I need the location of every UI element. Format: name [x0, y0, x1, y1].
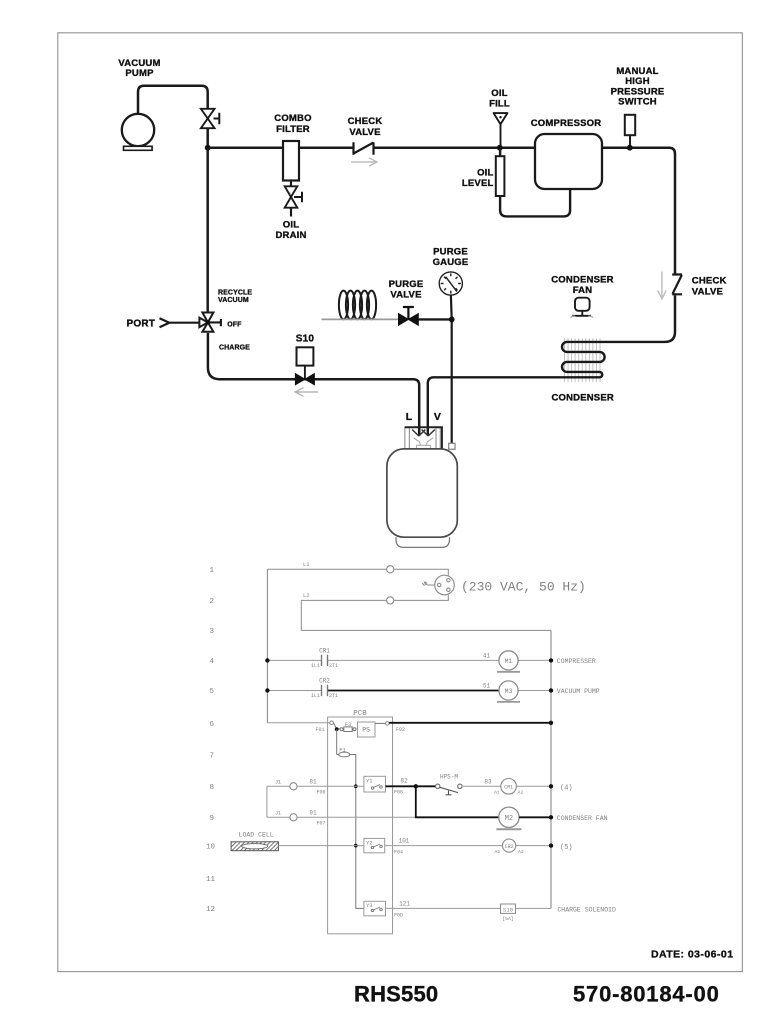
svg-text:COMPRESSER: COMPRESSER [557, 658, 596, 665]
svg-text:12: 12 [206, 906, 215, 914]
coil CR2 [503, 839, 516, 852]
svg-text:11: 11 [206, 876, 216, 884]
node rung4 right [549, 658, 553, 662]
manual high pressure switch body [625, 115, 635, 135]
svg-text:F07: F07 [317, 821, 326, 827]
node rung10 right [549, 843, 553, 847]
svg-text:5: 5 [209, 688, 214, 696]
flow arrow right [351, 158, 377, 166]
relay Y3 [364, 901, 386, 916]
valve: purge valve [399, 307, 419, 325]
svg-text:CONDENSER: CONDENSER [551, 393, 614, 404]
wire M2 to rail bold [519, 816, 551, 818]
motor M2 [499, 807, 519, 827]
PS box [358, 722, 376, 737]
rung numbers [206, 567, 216, 914]
svg-text:(230 VAC, 50 Hz): (230 VAC, 50 Hz) [461, 580, 586, 595]
wire rung 4 [267, 659, 551, 661]
valve: oil drain valve [285, 186, 302, 207]
wire rung 9 bold [416, 786, 499, 817]
svg-text:6: 6 [209, 721, 214, 729]
svg-text:91: 91 [309, 810, 317, 817]
svg-text:F06: F06 [394, 790, 403, 796]
wire rung 8 bold [386, 785, 436, 787]
svg-text:CONDENSER FAN: CONDENSER FAN [557, 815, 608, 822]
vacuum pump body [122, 114, 154, 146]
node rung8 right [549, 784, 553, 788]
left rail [266, 569, 268, 723]
svg-text:2: 2 [209, 598, 214, 606]
svg-text:F01: F01 [315, 727, 324, 733]
wire: recycle vertical line [206, 148, 209, 313]
node: oil fill junction [497, 145, 503, 151]
wire: oil drain stem [290, 181, 292, 217]
svg-text:A1: A1 [495, 849, 501, 855]
wire: purge valve to junction [418, 318, 451, 320]
relay Y1 [364, 776, 386, 792]
svg-text:FAN: FAN [573, 285, 593, 296]
coil CR1 [501, 779, 517, 795]
combo filter body [283, 141, 299, 181]
svg-text:1: 1 [209, 567, 214, 575]
svg-text:4: 4 [209, 658, 214, 666]
solenoid S10 (elec) [501, 904, 516, 913]
tank level sensor fitting [449, 443, 455, 449]
svg-text:CR1: CR1 [319, 648, 330, 655]
svg-text:HPS-M: HPS-M [440, 774, 458, 781]
svg-text:FILL: FILL [489, 98, 510, 109]
svg-text:3: 3 [209, 628, 214, 636]
node rung5 left [265, 688, 269, 692]
wire rung 8 right [462, 785, 551, 787]
svg-text:PS: PS [362, 727, 370, 734]
svg-text:M1: M1 [505, 658, 513, 665]
tank base [396, 537, 450, 547]
svg-text:CONDENSER: CONDENSER [551, 275, 614, 286]
contact CR1 [322, 655, 328, 666]
svg-text:41: 41 [483, 653, 491, 660]
svg-text:82: 82 [400, 778, 408, 785]
svg-text:OIL: OIL [477, 168, 493, 179]
wire rung 12 [386, 907, 552, 909]
wire rung 6 right (bold) [389, 722, 551, 724]
wire rung 9 [297, 816, 416, 818]
wire PS out [375, 722, 386, 724]
vacuum pump base [124, 146, 153, 150]
svg-text:PURGE: PURGE [433, 247, 468, 258]
oil fill funnel [493, 113, 508, 148]
svg-text:OIL: OIL [491, 88, 507, 99]
svg-text:CR2: CR2 [505, 844, 514, 850]
terminal circle rung 2 [387, 597, 394, 604]
svg-text:1L1: 1L1 [311, 693, 320, 699]
svg-text:RHS550: RHS550 [354, 982, 438, 1007]
terminal circle rung 1 [387, 566, 394, 573]
svg-text:J1: J1 [275, 780, 281, 786]
relay Y2 [364, 838, 385, 852]
node rung8 tap [414, 784, 418, 788]
svg-text:(5): (5) [560, 844, 573, 852]
wire rung 2 (L2) [301, 595, 448, 631]
node: pump line junction [205, 145, 211, 151]
svg-text:CR2: CR2 [319, 678, 330, 685]
svg-text:10: 10 [206, 844, 216, 852]
node: hps junction [627, 145, 633, 151]
svg-text:S10: S10 [296, 334, 315, 345]
tank fitting top bar [405, 427, 442, 449]
svg-text:1L1: 1L1 [311, 663, 320, 669]
svg-text:VALVE: VALVE [390, 290, 421, 301]
purge gauge [439, 272, 462, 295]
power plug 230VAC [422, 575, 454, 595]
svg-text:V: V [434, 411, 441, 423]
svg-text:9: 9 [209, 815, 214, 823]
svg-text:L1: L1 [303, 561, 310, 568]
condenser fan symbol [571, 298, 594, 318]
flow arrow left [295, 388, 318, 397]
svg-text:F06: F06 [317, 790, 326, 796]
svg-text:PURGE: PURGE [389, 279, 424, 290]
node F1 tap [335, 727, 339, 731]
svg-text:DRAIN: DRAIN [275, 230, 306, 241]
svg-text:Y1: Y1 [366, 778, 373, 785]
svg-text:COMBO: COMBO [274, 113, 311, 124]
wire: condenser outlet to tank vapor port [428, 377, 545, 435]
svg-text:VACUUM PUMP: VACUUM PUMP [557, 688, 600, 695]
tank fitting funnel [414, 438, 434, 449]
J1 bracket rungs 8-9 [267, 786, 290, 817]
wire rung 10 [278, 845, 364, 847]
svg-text:FILTER: FILTER [276, 124, 310, 135]
condenser coil [545, 342, 665, 377]
PCB box [328, 717, 393, 934]
svg-text:L2: L2 [303, 592, 310, 599]
svg-text:LOAD CELL: LOAD CELL [239, 832, 274, 839]
svg-text:(4): (4) [560, 785, 573, 793]
svg-text:F0D: F0D [394, 913, 403, 919]
oil level sight glass [496, 156, 505, 196]
svg-text:VACUUM: VACUUM [218, 297, 249, 304]
purge coil [339, 291, 376, 320]
port arrow [160, 318, 201, 327]
wire: purge line gray [322, 318, 399, 320]
svg-text:83: 83 [484, 779, 492, 786]
PCB exit circle [386, 722, 390, 726]
svg-text:101: 101 [399, 838, 410, 845]
refrigerant tank body [387, 449, 457, 537]
svg-text:DATE: 03-06-01: DATE: 03-06-01 [651, 949, 734, 961]
node feed rung10 [354, 844, 358, 848]
motor M1 [499, 651, 518, 670]
wire rung 8 left [297, 785, 364, 787]
svg-text:2T1: 2T1 [329, 663, 338, 669]
svg-text:OIL: OIL [283, 220, 299, 231]
wire: gauge stem and drop to tank [450, 295, 453, 443]
valve: recycle/off/charge selector [199, 313, 221, 332]
fuse F3 [340, 728, 343, 731]
svg-text:F3: F3 [345, 721, 352, 728]
wire rung 6 left [267, 722, 329, 724]
svg-text:CHECK: CHECK [692, 276, 727, 287]
node rung6 right [549, 721, 553, 725]
svg-text:A2: A2 [518, 790, 524, 796]
compressor body [535, 134, 602, 189]
wire: oil level loop to compressor [500, 148, 570, 217]
solenoid S10 coil box [297, 347, 314, 365]
svg-text:7: 7 [209, 753, 214, 761]
svg-text:Y2: Y2 [366, 840, 373, 847]
svg-text:F02: F02 [396, 727, 405, 733]
node: purge junction [449, 317, 455, 323]
PCB entry circle [330, 721, 334, 725]
check valve (right) symbol [672, 275, 682, 295]
right rail [550, 630, 552, 908]
svg-text:8: 8 [209, 784, 214, 792]
wire rung 5 [267, 690, 321, 692]
wire rung 3 [301, 629, 551, 631]
svg-text:121: 121 [399, 901, 410, 908]
svg-text:PUMP: PUMP [125, 68, 154, 79]
svg-text:F04: F04 [394, 850, 403, 856]
valve: S10 charge solenoid valve [295, 374, 314, 385]
wire rung 10 right [385, 845, 551, 847]
fuse F1 [336, 729, 338, 754]
check valve (discharge) symbol [354, 142, 374, 154]
svg-text:L: L [406, 411, 413, 423]
svg-text:M3: M3 [505, 688, 513, 695]
svg-text:VALVE: VALVE [692, 287, 723, 298]
J1 circle rung 9 [290, 814, 297, 821]
wire: main suction line [208, 148, 675, 342]
wire: pump outlet pipe [138, 86, 208, 148]
svg-text:J1: J1 [275, 811, 281, 817]
wire: charge line to tank liquid port [208, 333, 419, 436]
svg-text:Y3: Y3 [366, 902, 373, 909]
motor M3 [499, 681, 518, 700]
svg-text:COMPRESSOR: COMPRESSOR [531, 118, 602, 129]
flow arrow down [658, 272, 667, 299]
valve: pump isolation valve [201, 109, 219, 128]
node rung5 right [549, 688, 553, 692]
svg-text:570-80184-00: 570-80184-00 [573, 982, 720, 1007]
svg-text:81: 81 [309, 779, 317, 786]
contact CR2 [322, 685, 328, 696]
svg-text:SWITCH: SWITCH [618, 97, 657, 108]
svg-text:CHARGE SOLENOID: CHARGE SOLENOID [557, 906, 616, 913]
svg-text:OFF: OFF [227, 321, 242, 328]
svg-text:2T1: 2T1 [329, 693, 338, 699]
svg-text:LEVEL: LEVEL [462, 178, 494, 189]
svg-text:PORT: PORT [127, 319, 156, 330]
wire: relay feed vertical [356, 755, 364, 909]
node feed rung8 [354, 784, 358, 788]
svg-text:CHARGE: CHARGE [219, 345, 250, 352]
node rung9 right [549, 815, 553, 819]
svg-text:PCB: PCB [353, 710, 367, 718]
svg-text:CHECK: CHECK [348, 116, 383, 127]
condenser fins [565, 338, 601, 382]
svg-text:RECYCLE: RECYCLE [218, 290, 252, 297]
tank fitting valve crosses [412, 430, 435, 436]
svg-text:CR1: CR1 [504, 785, 513, 791]
wire rung 1 (L1) [267, 569, 448, 575]
J1 circle rung 8 [290, 783, 297, 790]
load cell body [231, 842, 278, 851]
svg-text:S10: S10 [503, 906, 513, 913]
wire to F3 [333, 723, 340, 729]
svg-text:[5A]: [5A] [502, 916, 514, 922]
svg-text:M2: M2 [505, 815, 513, 823]
tank mouth [416, 448, 436, 450]
svg-text:51: 51 [483, 683, 491, 690]
tank fitting posts [405, 428, 441, 449]
svg-text:A2: A2 [518, 849, 524, 855]
svg-text:A1: A1 [494, 790, 500, 796]
svg-text:VALVE: VALVE [349, 127, 380, 138]
node rung4 left [265, 658, 269, 662]
svg-text:GAUGE: GAUGE [433, 257, 469, 268]
